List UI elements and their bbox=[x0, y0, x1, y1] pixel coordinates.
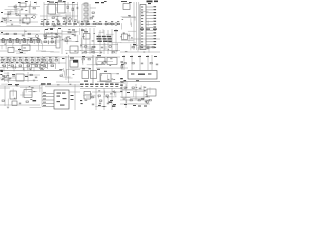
label bbox=[103, 106, 106, 107]
label bbox=[148, 74, 151, 75]
resistor R9 bbox=[57, 23, 59, 24]
wire mesh B bbox=[41, 15, 80, 27]
IC U10 label block bbox=[97, 36, 112, 42]
wire bbox=[99, 30, 101, 54]
resistor ladder RN2 bbox=[84, 2, 90, 26]
IC U15 bbox=[96, 58, 105, 65]
wire bbox=[111, 29, 113, 54]
wire bbox=[136, 2, 138, 50]
wire bbox=[36, 50, 46, 52]
wire mesh D bbox=[2, 57, 46, 71]
wire bbox=[0, 50, 8, 52]
capacitor C5 bbox=[92, 15, 94, 18]
label bbox=[127, 92, 130, 93]
label dark bbox=[73, 60, 78, 63]
wire bbox=[32, 87, 42, 89]
U22 pins bbox=[42, 92, 54, 107]
label bbox=[146, 56, 149, 57]
IC U21 bbox=[24, 90, 32, 98]
node N bbox=[120, 91, 122, 92]
wire bbox=[120, 82, 128, 84]
capacitor C22 bbox=[101, 46, 103, 49]
wire mesh Q bbox=[1, 73, 15, 83]
wire bbox=[85, 28, 87, 54]
wire bbox=[0, 67, 44, 69]
resistor R24 bbox=[152, 47, 154, 48]
wire bbox=[14, 6, 40, 8]
label bbox=[50, 29, 53, 30]
label bbox=[12, 74, 15, 75]
wire bbox=[40, 15, 78, 17]
wire bbox=[4, 86, 6, 106]
capacitor C4 bbox=[65, 22, 68, 24]
label U5 bbox=[123, 1, 127, 2]
wire bbox=[96, 67, 120, 69]
wire bbox=[7, 72, 9, 82]
label bbox=[121, 62, 124, 63]
IC U22 bbox=[54, 90, 69, 109]
resistor R45 bbox=[149, 100, 151, 101]
resistor R18 bbox=[44, 35, 46, 36]
wire bbox=[131, 55, 133, 70]
component row RN bbox=[2, 38, 55, 44]
wire bbox=[81, 4, 83, 26]
wire bbox=[82, 21, 88, 23]
node G bbox=[0, 74, 2, 75]
label TR bbox=[147, 1, 153, 3]
wire bbox=[95, 88, 97, 110]
resistor R31 bbox=[2, 100, 4, 101]
wire mesh P bbox=[57, 68, 84, 85]
bus bbox=[0, 70, 62, 72]
wire bbox=[123, 55, 125, 70]
label bbox=[97, 69, 100, 70]
resistor R11 bbox=[90, 18, 92, 19]
label U4 bbox=[58, 0, 62, 1]
IC U19 bbox=[100, 74, 111, 82]
resistor R30 bbox=[132, 63, 134, 64]
resistor R7 bbox=[63, 18, 65, 19]
label bbox=[82, 56, 85, 57]
wire bbox=[103, 88, 105, 110]
wire bbox=[0, 33, 76, 35]
resistor R52 bbox=[109, 46, 111, 47]
resistor R36 bbox=[124, 87, 126, 88]
wire bbox=[92, 55, 94, 83]
connector J1 bbox=[140, 5, 146, 50]
resistor R28 bbox=[88, 59, 90, 60]
label bbox=[62, 58, 65, 59]
label bbox=[124, 104, 127, 105]
label bbox=[89, 68, 92, 69]
wire bbox=[135, 84, 137, 100]
label row mid-left bbox=[1, 39, 41, 40]
node T2 bbox=[34, 2, 37, 3]
wire bbox=[81, 28, 83, 54]
wire bbox=[125, 84, 127, 108]
label bbox=[104, 71, 107, 72]
node J bbox=[80, 100, 82, 101]
capacitor C23 bbox=[50, 61, 52, 64]
component row T3 bbox=[81, 21, 120, 25]
label bbox=[70, 58, 74, 59]
wire bbox=[120, 89, 147, 91]
wire mesh N bbox=[121, 15, 136, 33]
wire mesh A bbox=[2, 1, 37, 26]
label row bottom bbox=[80, 84, 119, 87]
transistor Q3 bbox=[115, 23, 118, 26]
resistor R46 bbox=[150, 63, 152, 64]
capacitor C20 bbox=[156, 63, 158, 66]
IC U5 bbox=[123, 4, 130, 10]
resistor R33 bbox=[26, 101, 28, 102]
IC U17 bbox=[82, 71, 89, 79]
resistor R48 bbox=[68, 32, 70, 33]
resistor R35 bbox=[106, 95, 108, 96]
node L bbox=[120, 85, 123, 86]
label bbox=[71, 95, 74, 96]
resistor R8 bbox=[46, 23, 48, 24]
capacitor C15 bbox=[139, 87, 141, 90]
wire bbox=[120, 67, 128, 69]
transistor Q4 bbox=[36, 35, 39, 38]
resistor R25 bbox=[4, 76, 6, 77]
resistor R14 bbox=[108, 23, 110, 24]
capacitor C8 bbox=[100, 51, 102, 54]
wire bbox=[0, 62, 66, 64]
label bbox=[113, 104, 116, 105]
resistor R50 bbox=[85, 46, 87, 47]
wire bbox=[0, 104, 40, 106]
wire mesh K bbox=[120, 31, 136, 43]
label bbox=[131, 74, 134, 75]
resistor R5 bbox=[4, 19, 6, 20]
wire mesh C bbox=[2, 30, 81, 54]
label bbox=[140, 29, 144, 30]
capacitor C2 bbox=[25, 14, 27, 17]
wire mesh H bbox=[121, 84, 150, 104]
node T10 bbox=[129, 2, 132, 3]
wire bbox=[115, 29, 117, 54]
label U3 bbox=[49, 1, 54, 4]
capacitor C3 bbox=[56, 18, 58, 21]
wire bbox=[56, 9, 58, 11]
resistor R10 bbox=[92, 12, 94, 13]
vert element bbox=[56, 36, 60, 48]
wire bbox=[0, 56, 120, 58]
IC U8 bbox=[70, 46, 78, 53]
wire bbox=[24, 74, 40, 76]
IC U14 bbox=[16, 74, 24, 81]
wire bbox=[143, 86, 145, 100]
node C bbox=[44, 19, 46, 20]
ground bbox=[33, 80, 35, 81]
node T0 bbox=[18, 2, 21, 3]
wire bbox=[111, 21, 113, 26]
label bbox=[84, 81, 88, 82]
IC U20 bbox=[10, 91, 17, 99]
capacitor C16 bbox=[145, 100, 147, 103]
node A bbox=[1, 12, 3, 13]
IC U24 bbox=[147, 89, 156, 96]
capacitor C13 bbox=[99, 102, 101, 105]
wire bbox=[69, 12, 71, 24]
wire bbox=[4, 13, 36, 15]
wire bbox=[90, 7, 96, 9]
label row 62 bbox=[1, 62, 43, 72]
IC U25 bbox=[12, 101, 17, 106]
wire bbox=[120, 103, 150, 105]
wire mesh M bbox=[43, 28, 59, 38]
resistor R13 bbox=[96, 23, 98, 24]
resistor R42 bbox=[60, 75, 62, 76]
wire bbox=[67, 2, 69, 22]
wire bbox=[41, 84, 43, 107]
resistor R12 bbox=[86, 23, 88, 24]
wire bbox=[80, 23, 120, 25]
node T5 bbox=[63, 1, 66, 2]
label bbox=[25, 76, 28, 77]
wire bbox=[86, 96, 96, 98]
resistor R41 bbox=[72, 8, 74, 11]
component row T2 bbox=[41, 21, 77, 25]
wire bbox=[103, 30, 105, 54]
node H bbox=[120, 78, 123, 79]
wire bbox=[27, 72, 29, 82]
capacitor C21 bbox=[74, 34, 76, 37]
IC U18 bbox=[91, 71, 97, 79]
node T7 bbox=[96, 2, 99, 3]
label bbox=[15, 84, 19, 85]
resistor R16 bbox=[14, 33, 16, 34]
wire bbox=[44, 36, 62, 38]
wire bbox=[80, 50, 120, 52]
resistor R34 bbox=[98, 95, 100, 96]
label bbox=[20, 52, 23, 53]
wire bbox=[45, 86, 80, 88]
resistor R39 bbox=[138, 100, 140, 101]
wire bbox=[29, 4, 31, 14]
wire bbox=[121, 62, 123, 70]
wire mesh O bbox=[64, 28, 80, 42]
capacitor C9 bbox=[147, 47, 149, 50]
label bbox=[71, 99, 74, 100]
wire bbox=[82, 3, 88, 5]
resistor R47 bbox=[121, 66, 123, 69]
wire bbox=[92, 91, 120, 93]
label bbox=[133, 44, 136, 45]
IC U4 bbox=[58, 2, 66, 13]
resistor R6 bbox=[52, 17, 54, 18]
node T9 bbox=[121, 1, 124, 2]
wire bbox=[0, 85, 40, 87]
wire mesh J bbox=[1, 84, 41, 107]
label bbox=[81, 30, 84, 31]
resistor R21 bbox=[112, 52, 114, 53]
wire bbox=[0, 26, 96, 28]
resistor R27 bbox=[82, 59, 84, 60]
capacitor C18 bbox=[35, 76, 37, 79]
label U22 text bbox=[57, 93, 67, 106]
label bbox=[110, 100, 113, 101]
label bbox=[144, 106, 147, 107]
IC U13 bbox=[70, 60, 78, 67]
label bbox=[121, 82, 124, 83]
capacitor C11 bbox=[141, 62, 143, 65]
label bbox=[2, 76, 5, 77]
label bbox=[141, 99, 144, 100]
wire bbox=[56, 81, 80, 83]
wire bbox=[14, 9, 22, 11]
wire bbox=[120, 99, 150, 101]
label bbox=[45, 29, 48, 30]
wire bbox=[0, 87, 10, 89]
label TR2 bbox=[154, 1, 158, 3]
label J2 bbox=[138, 74, 145, 75]
resistor R17 bbox=[28, 33, 30, 34]
wire bbox=[15, 4, 17, 12]
IC U16 bbox=[107, 58, 117, 65]
wire bbox=[120, 96, 150, 98]
wire bbox=[80, 88, 120, 90]
label bbox=[98, 105, 101, 106]
capacitor C12 bbox=[19, 102, 21, 105]
resistor R23 bbox=[140, 47, 142, 48]
wire bbox=[80, 44, 118, 46]
wire bbox=[56, 7, 58, 9]
wire bbox=[120, 81, 160, 83]
resistor R38 bbox=[130, 100, 132, 101]
wire bbox=[0, 77, 16, 79]
resistor R40 bbox=[67, 6, 69, 9]
wire bbox=[0, 41, 60, 43]
component row 2 bbox=[1, 57, 59, 64]
label bbox=[8, 84, 12, 85]
label TR3 bbox=[148, 3, 151, 4]
transistor Q1 bbox=[33, 16, 36, 19]
wire bbox=[2, 17, 30, 19]
IC U6 bbox=[8, 48, 14, 53]
label bbox=[72, 30, 75, 31]
node B bbox=[1, 21, 3, 22]
label bbox=[95, 2, 99, 3]
label bbox=[97, 55, 101, 56]
wire bbox=[0, 30, 40, 32]
connector pin labels bbox=[153, 6, 156, 48]
node T6 bbox=[72, 2, 75, 3]
resistor R4 bbox=[16, 14, 18, 15]
wire bbox=[120, 51, 160, 53]
wire bbox=[105, 21, 107, 26]
label bbox=[112, 106, 115, 107]
wire mesh E bbox=[80, 29, 121, 53]
wire bbox=[65, 12, 67, 26]
IC U3 bbox=[48, 4, 56, 14]
capacitor C6 bbox=[22, 34, 24, 37]
label bbox=[136, 80, 139, 81]
node T3 bbox=[47, 1, 50, 2]
wire bbox=[120, 81, 160, 83]
wire bbox=[80, 46, 96, 48]
wire bbox=[107, 30, 109, 54]
node E bbox=[1, 71, 4, 72]
resistor R20 bbox=[92, 52, 94, 53]
wire bbox=[65, 56, 67, 80]
node T8 bbox=[104, 1, 107, 2]
capacitor C10 bbox=[9, 77, 11, 80]
wire bbox=[40, 84, 80, 86]
label bbox=[44, 77, 47, 78]
label row bbox=[58, 28, 61, 29]
wire bbox=[139, 55, 141, 70]
resistor R37 bbox=[132, 87, 134, 88]
capacitor C7 bbox=[65, 37, 68, 39]
node K bbox=[81, 103, 83, 104]
resistor R22 bbox=[132, 47, 134, 48]
label bbox=[18, 49, 21, 50]
wire bbox=[15, 50, 28, 52]
label bbox=[82, 68, 85, 69]
IC U1 bbox=[20, 3, 26, 7]
wire bbox=[111, 88, 113, 110]
wire mesh S bbox=[141, 11, 149, 26]
label bbox=[122, 56, 125, 57]
wire bbox=[44, 4, 78, 6]
wire bbox=[130, 38, 160, 40]
wire bbox=[61, 30, 63, 54]
wire bbox=[138, 2, 140, 50]
resistor R15 bbox=[6, 33, 8, 34]
wire bbox=[97, 81, 112, 83]
wire bbox=[0, 45, 56, 47]
resistor R2 bbox=[33, 8, 35, 9]
wire bbox=[19, 10, 21, 24]
IC U12 bbox=[122, 34, 128, 40]
label bbox=[153, 29, 157, 30]
resistor R29 bbox=[124, 63, 126, 64]
wire bbox=[51, 32, 53, 44]
node T1 bbox=[25, 1, 28, 2]
wire mesh G bbox=[81, 57, 113, 68]
wire bbox=[133, 2, 135, 50]
capacitor C19 bbox=[92, 103, 94, 106]
transistor Q2 bbox=[69, 18, 72, 21]
label bbox=[138, 106, 141, 107]
wire bbox=[121, 84, 123, 98]
label bbox=[154, 56, 157, 57]
resistor R3 bbox=[8, 13, 10, 14]
ground bbox=[11, 24, 13, 25]
IC U9 bbox=[84, 34, 91, 40]
node I bbox=[124, 80, 127, 81]
resistor R43 bbox=[91, 97, 93, 98]
wire bbox=[77, 2, 79, 22]
label bbox=[109, 102, 112, 103]
wire mesh L bbox=[41, 56, 60, 70]
wire bbox=[43, 2, 45, 26]
wire mesh F bbox=[125, 44, 154, 53]
wire mesh R bbox=[100, 73, 120, 84]
resistor R49 bbox=[66, 40, 68, 41]
resistor R19 bbox=[84, 52, 86, 53]
label bbox=[146, 29, 150, 30]
label bbox=[130, 56, 133, 57]
wire bbox=[89, 28, 91, 54]
wire bbox=[69, 91, 80, 93]
resistor R1 bbox=[14, 6, 16, 7]
wire bbox=[74, 84, 76, 110]
label bbox=[121, 64, 124, 65]
